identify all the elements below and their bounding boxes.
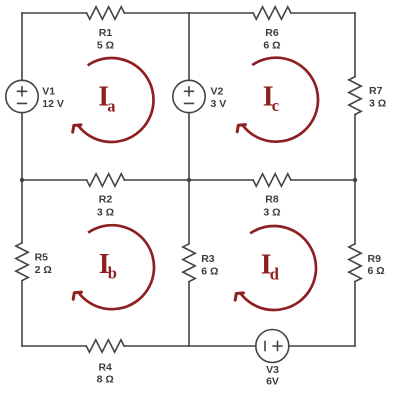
svg-text:V3: V3 [266,364,279,376]
wire middle rail V2 to center node [188,113,190,180]
wire left rail mid node to R5 [21,180,23,243]
resistor R2 [87,174,125,186]
wire right rail bottom [354,282,356,346]
svg-text:3 Ω: 3 Ω [97,207,114,219]
svg-text:R6: R6 [265,27,279,39]
wire middle rail bottom [188,283,190,346]
wire left rail V1 to mid node [21,113,23,180]
svg-text:d: d [270,264,279,283]
svg-text:6 Ω: 6 Ω [201,266,218,278]
wire middle rail center node to R3 [188,180,190,244]
svg-text:V2: V2 [211,86,224,98]
svg-text:c: c [272,96,279,115]
svg-text:R5: R5 [35,252,49,264]
resistor R8 [253,174,291,186]
resistor R7 [349,77,361,115]
voltage source V3 [256,330,289,363]
wire left rail top [21,13,23,80]
node junction dot right-mid [353,178,357,182]
wire middle rail top [188,13,190,80]
wire right rail R7 to mid node [354,115,356,181]
svg-text:b: b [108,264,117,283]
svg-text:R9: R9 [368,253,382,265]
resistor R3 [183,244,195,282]
svg-text:3 Ω: 3 Ω [369,98,386,110]
mesh current arrow Ic (clockwise loop) [237,58,318,142]
svg-text:R1: R1 [99,27,113,39]
svg-text:R4: R4 [98,361,112,373]
svg-text:8 Ω: 8 Ω [97,374,114,386]
svg-text:R8: R8 [265,194,279,206]
wire top rail R1 to node [124,12,189,14]
wire left rail bottom [21,282,23,346]
mesh current arrow Ia (clockwise loop) [73,58,154,142]
svg-text:a: a [107,96,115,115]
wire mid rail right segment [291,179,355,181]
resistor R9 [349,244,361,282]
voltage source V2 [173,80,205,112]
wire bottom rail left segment [22,345,86,347]
svg-text:6 Ω: 6 Ω [263,40,280,52]
svg-text:3 Ω: 3 Ω [263,207,280,219]
mesh current arrow Ib (clockwise loop) [73,225,154,309]
svg-text:R2: R2 [99,194,113,206]
wire right rail mid node to R9 [354,180,356,244]
svg-text:6 Ω: 6 Ω [368,265,385,277]
wire top-right rail segment [291,12,355,14]
node junction dot center [187,178,191,182]
resistor R4 [86,340,124,352]
wire top rail node to R6 [189,12,253,14]
wire mid rail center node to R8 [189,179,253,181]
wire top-left rail segment [22,12,87,14]
svg-text:12 V: 12 V [42,98,64,110]
resistor R5 [16,243,28,281]
svg-text:5 Ω: 5 Ω [97,40,114,52]
resistor R1 [87,7,125,19]
voltage source V1 [6,80,38,112]
svg-text:6V: 6V [266,376,279,388]
svg-text:2 Ω: 2 Ω [35,264,52,276]
wire bottom rail R4 to V3 [124,345,255,347]
wire mid rail R2 to center node [124,179,189,181]
node junction dot left-mid [20,178,24,182]
svg-text:R7: R7 [369,85,383,97]
wire bottom rail right segment [289,345,355,347]
svg-text:V1: V1 [42,86,55,98]
mesh current arrow Id (clockwise loop) [235,226,316,310]
svg-text:R3: R3 [201,253,215,265]
wire right rail top [354,13,356,77]
svg-text:3 V: 3 V [211,98,227,110]
wire mid rail left segment [22,179,87,181]
resistor R6 [253,7,291,19]
